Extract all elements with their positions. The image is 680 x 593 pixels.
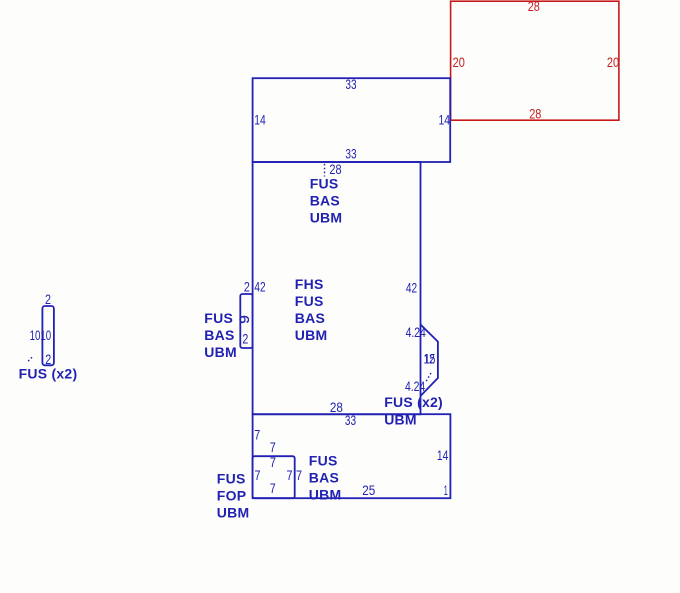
svg-text:4.24: 4.24 (406, 324, 426, 340)
svg-text:FUS: FUS (310, 176, 339, 192)
svg-text:BAS: BAS (310, 193, 340, 209)
svg-text:33: 33 (345, 76, 356, 92)
svg-text:33: 33 (345, 412, 356, 428)
svg-text:FUS: FUS (295, 293, 324, 309)
svg-text:2: 2 (242, 331, 248, 347)
svg-text:UBM: UBM (204, 344, 237, 360)
svg-text:7: 7 (270, 480, 276, 496)
svg-text:7: 7 (270, 439, 276, 455)
svg-text:UBM: UBM (310, 210, 343, 226)
svg-text:28: 28 (329, 161, 341, 177)
svg-text:UBM: UBM (309, 486, 342, 502)
svg-text:14: 14 (254, 111, 266, 127)
svg-text:28: 28 (528, 0, 540, 14)
svg-text:2: 2 (244, 278, 250, 294)
svg-text:7: 7 (254, 427, 260, 443)
svg-text:FUS: FUS (204, 310, 233, 326)
svg-text:7: 7 (296, 467, 302, 483)
svg-text:28: 28 (330, 399, 343, 415)
svg-text:1: 1 (444, 482, 448, 498)
svg-text:7: 7 (287, 467, 293, 483)
svg-text:7: 7 (270, 454, 276, 470)
svg-text:BAS: BAS (295, 310, 325, 326)
svg-text:7: 7 (255, 467, 261, 483)
svg-text:2: 2 (45, 291, 51, 307)
svg-text:15: 15 (424, 351, 435, 367)
svg-text:1010: 1010 (30, 327, 52, 343)
svg-text:33: 33 (345, 146, 356, 162)
svg-text:FOP: FOP (217, 488, 247, 504)
svg-text:42: 42 (406, 280, 417, 296)
svg-text:FUS (x2): FUS (x2) (19, 365, 78, 381)
svg-text:FUS: FUS (309, 452, 338, 468)
svg-text:UBM: UBM (295, 327, 328, 343)
svg-text:BAS: BAS (309, 469, 339, 485)
svg-text:4.24: 4.24 (405, 378, 425, 394)
svg-text:20: 20 (453, 54, 465, 70)
svg-text:FHS: FHS (295, 276, 324, 292)
svg-text:UBM: UBM (217, 505, 250, 521)
svg-text:FUS (x2): FUS (x2) (384, 394, 443, 410)
svg-text:BAS: BAS (204, 327, 234, 343)
svg-text:9: 9 (236, 315, 252, 324)
svg-text:14: 14 (437, 447, 449, 463)
svg-text:42: 42 (254, 278, 265, 294)
svg-text:14: 14 (439, 111, 451, 127)
svg-text:28: 28 (529, 106, 541, 122)
svg-text:25: 25 (362, 482, 375, 498)
svg-text:FUS: FUS (217, 471, 246, 487)
svg-text:20: 20 (607, 54, 619, 70)
